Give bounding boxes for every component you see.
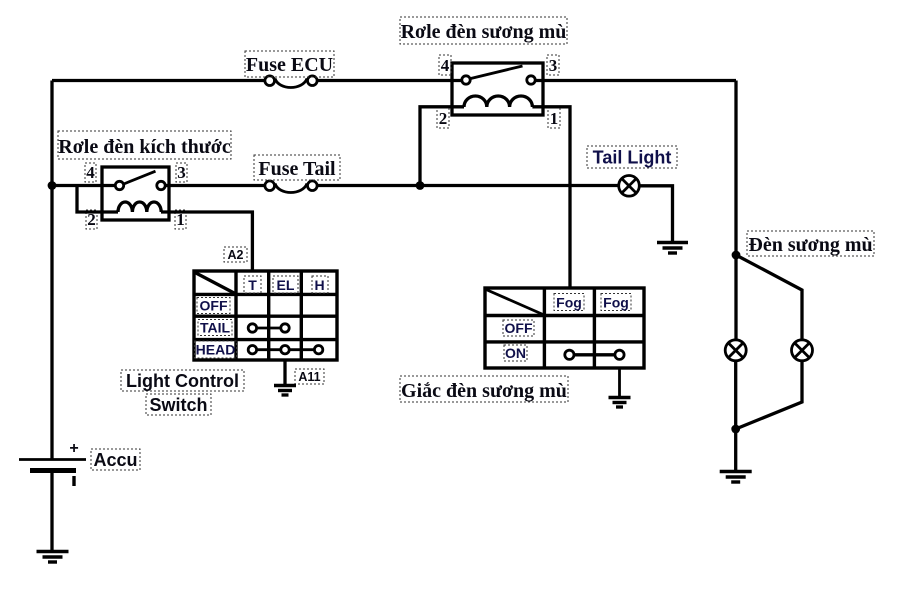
wire fog lamp left branch — [734, 255, 737, 340]
label Role den suong mu — [400, 17, 567, 44]
wire battery to ground — [50, 471, 53, 551]
wire right vertical from top bus — [734, 81, 737, 256]
wire top bus left segment — [52, 79, 265, 82]
label A11 — [295, 369, 324, 384]
relay U2 switch blade — [470, 66, 522, 79]
svg-text:4: 4 — [86, 163, 95, 182]
svg-text:T: T — [248, 277, 257, 293]
svg-text:Accu: Accu — [93, 450, 137, 470]
lamp fog left — [725, 340, 746, 361]
fuse Fuse ECU — [265, 76, 317, 88]
svg-text:Rơle đèn sương mù: Rơle đèn sương mù — [401, 21, 567, 43]
wire relay U2 pin1 to fog connector — [532, 107, 570, 288]
svg-text:Light Control: Light Control — [126, 371, 239, 391]
label Accu — [91, 449, 140, 470]
svg-text:A2: A2 — [228, 248, 244, 262]
wire relay U1 pin2 branch — [77, 186, 118, 213]
svg-text:3: 3 — [177, 163, 186, 182]
label Role den kich thuoc — [58, 131, 231, 159]
ground fog lamps — [720, 472, 752, 483]
svg-text:Fog: Fog — [556, 295, 582, 311]
relay U1 switch blade — [124, 171, 156, 184]
wire left vertical from top bus to battery — [50, 81, 53, 460]
svg-text:Rơle đèn kích thước: Rơle đèn kích thước — [58, 136, 231, 158]
wire relay U2 pin2 to tail bus — [420, 107, 464, 186]
svg-text:TAIL: TAIL — [200, 320, 231, 336]
svg-text:3: 3 — [549, 56, 558, 75]
label OFF row fog — [503, 320, 534, 336]
svg-text:+: + — [69, 440, 78, 457]
node junction left bus — [48, 181, 57, 190]
ground fog connector — [609, 398, 631, 408]
switch contacts HEAD row — [248, 346, 323, 354]
wire top bus middle segment — [317, 79, 462, 82]
svg-text:OFF: OFF — [505, 320, 533, 336]
relay U2 coil — [464, 96, 532, 107]
wire fog junction to ground — [734, 429, 737, 470]
svg-text:OFF: OFF — [200, 298, 228, 314]
relay U1 contact right — [157, 181, 165, 189]
relay U1 Role den kich thuoc box — [102, 167, 169, 220]
relay U2 contact right — [527, 76, 535, 84]
label H column — [312, 276, 328, 293]
label T column — [244, 276, 261, 293]
label Den suong mu — [747, 231, 874, 256]
label Fuse ECU — [245, 51, 334, 77]
svg-text:H: H — [314, 277, 324, 293]
wire relay U1 pin1 to switch A2 — [161, 212, 252, 271]
label Fuse Tail — [254, 155, 340, 180]
connector table Giac den suong mu frame — [485, 288, 644, 368]
pin 2 relay U2 — [437, 108, 449, 128]
svg-text:Fog: Fog — [603, 295, 629, 311]
svg-text:Giắc đèn sương mù: Giắc đèn sương mù — [401, 380, 567, 402]
relay U1 contact left — [115, 181, 123, 189]
relay U2 contact left — [462, 76, 470, 84]
label Fog column 2 — [601, 294, 631, 311]
node junction relay U2 pin2 — [416, 181, 425, 190]
pin 3 relay U2 — [547, 55, 559, 75]
fuse Fuse Tail — [265, 181, 317, 193]
pin 1 relay U1 — [175, 210, 186, 229]
pin 4 relay U1 — [85, 163, 96, 182]
wire top bus right segment — [535, 79, 736, 82]
svg-text:Tail Light: Tail Light — [593, 148, 672, 168]
battery Accu — [19, 440, 86, 486]
ground A11 — [274, 386, 296, 396]
pin 3 relay U1 — [176, 163, 187, 182]
svg-text:4: 4 — [441, 56, 450, 75]
label Giac den suong mu — [400, 376, 568, 402]
label EL column — [273, 276, 298, 293]
node junction fog branch bottom — [731, 425, 740, 434]
relay U2 Role den suong mu box — [452, 63, 543, 115]
wire tail lamp to ground — [639, 186, 672, 241]
connector contacts ON row — [565, 350, 624, 359]
label A2 — [224, 247, 247, 262]
wire A11 to ground — [283, 360, 286, 384]
svg-text:ON: ON — [505, 345, 526, 361]
svg-text:Đèn sương mù: Đèn sương mù — [748, 234, 872, 256]
pin 1 relay U2 — [548, 108, 560, 128]
svg-text:1: 1 — [550, 109, 559, 128]
label Tail Light — [587, 146, 677, 168]
label OFF row — [197, 298, 230, 314]
relay U1 coil — [118, 202, 161, 212]
svg-text:2: 2 — [439, 109, 448, 128]
ground battery — [37, 552, 69, 563]
label HEAD row — [195, 341, 237, 358]
svg-text:EL: EL — [277, 277, 295, 293]
ground tail light — [657, 243, 688, 254]
node junction fog branch top — [732, 251, 741, 260]
svg-text:Fuse Tail: Fuse Tail — [258, 158, 336, 180]
wire fog connector to ground — [618, 368, 621, 396]
wire fog lamp left to junction bottom — [734, 361, 737, 429]
label ON row fog — [504, 345, 527, 361]
svg-text:HEAD: HEAD — [196, 342, 236, 358]
wire tail bus segment 2 — [165, 184, 265, 187]
svg-text:Fuse ECU: Fuse ECU — [246, 54, 333, 76]
svg-text:A11: A11 — [298, 370, 320, 384]
wire fog right branch lower diagonal — [736, 361, 802, 429]
switch contacts TAIL row — [248, 324, 289, 332]
label Fog column 1 — [554, 294, 584, 311]
wire tail bus segment 1 — [52, 184, 115, 187]
lamp fog right — [792, 340, 813, 361]
svg-text:Switch: Switch — [149, 395, 207, 415]
wire tail bus segment 3 — [317, 184, 619, 187]
label Light Control Switch — [121, 370, 244, 415]
pin 4 relay U2 — [439, 55, 451, 75]
label TAIL row — [198, 320, 232, 336]
pin 2 relay U1 — [86, 210, 97, 229]
lamp Tail Light — [619, 176, 640, 197]
switch table Light Control Switch frame — [194, 271, 337, 360]
wire fog right branch upper diagonal — [736, 255, 802, 340]
